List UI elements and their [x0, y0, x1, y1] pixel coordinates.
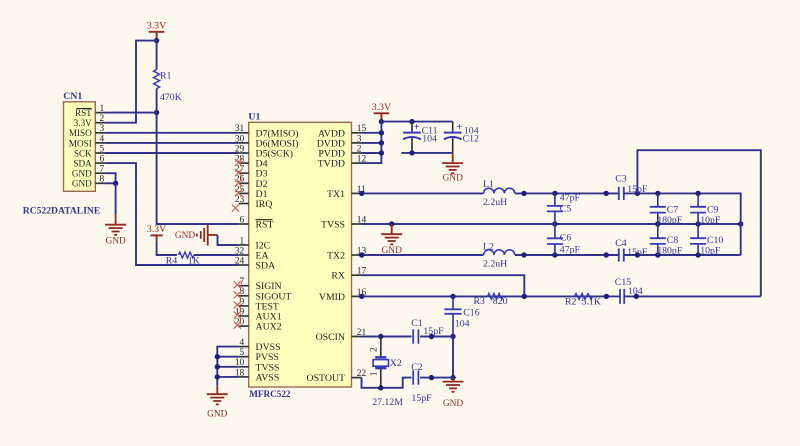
- svg-text:2.2uH: 2.2uH: [483, 259, 507, 270]
- U1 left pin 8 stub: [239, 295, 249, 297]
- U1 left pin 6 number: [240, 215, 245, 225]
- U1 left pin 4 number: [240, 338, 245, 348]
- U1 pin 9 name TEST: [256, 301, 279, 312]
- svg-text:22: 22: [357, 369, 367, 379]
- wire antenna loop: [637, 150, 760, 296]
- node junction C5 C6 mid: [552, 221, 557, 226]
- label C15 value 104: [628, 286, 643, 297]
- no-connect X on pin 28: [235, 159, 242, 166]
- svg-text:VMID: VMID: [319, 292, 345, 303]
- U1 pin 13 name TX2: [327, 251, 345, 262]
- wire crystal branch: [380, 337, 382, 358]
- U1 pin 11 name TX1: [327, 189, 345, 200]
- U1 right pin 12 number: [357, 155, 367, 165]
- node junction C7 top: [655, 191, 660, 196]
- U1 right pin 2 stub: [352, 152, 362, 154]
- CN1 pin 1 number: [100, 104, 105, 114]
- svg-text:GND: GND: [443, 173, 464, 183]
- svg-text:180pF: 180pF: [657, 215, 683, 226]
- U1 pin 5 name PVSS: [256, 352, 279, 363]
- U1 pin 8 name SIGOUT: [256, 291, 292, 302]
- svg-text:104: 104: [455, 319, 470, 330]
- wire I2C pin to sideways gnd: [218, 235, 239, 245]
- U1 left pin 25 stub: [239, 192, 249, 194]
- U1 pin 2 name PVDD: [318, 149, 345, 160]
- wire MOSI CN1 pin4 to U1 pin30: [105, 142, 239, 144]
- no-connect X on pin 9: [234, 301, 241, 308]
- svg-text:+: +: [456, 122, 462, 133]
- svg-text:6: 6: [240, 215, 245, 225]
- U1 pin 27 name D3: [256, 169, 268, 180]
- U1 right pin 17 number: [357, 267, 367, 277]
- CN1 pin 7 name GND: [72, 169, 92, 179]
- U1 pin 10 name TVSS: [256, 362, 280, 373]
- U1 right pin 22 number: [357, 369, 367, 379]
- ground under VSS bus: [207, 385, 228, 419]
- svg-text:3: 3: [357, 134, 362, 144]
- capacitor C2: [413, 370, 418, 384]
- no-connect X on pin 20: [234, 322, 241, 329]
- label C16 value 104: [455, 319, 470, 330]
- U1 pin 20 name AUX2: [256, 322, 282, 333]
- U1 left pin 31 stub: [239, 132, 249, 134]
- CN1 pin 6 stub: [95, 162, 105, 164]
- wire RST down to U1 pin6: [157, 113, 239, 224]
- U1 left pin 32 number: [235, 246, 245, 256]
- node junction C9 top: [695, 191, 700, 196]
- label R4: [166, 255, 178, 266]
- crystal pin 2 number: [370, 347, 380, 352]
- U1 left pin 7 number: [240, 277, 245, 287]
- node junction C16 OSCIN rail: [450, 334, 455, 339]
- capacitor C15: [620, 289, 624, 304]
- U1 pin 30 name D6(MOSI): [256, 138, 299, 149]
- U1 left pin 5 stub: [239, 356, 249, 358]
- U1 left pin 10 stub: [239, 366, 249, 368]
- node junction C6 bottom: [552, 252, 557, 257]
- crystal pin 1 number: [370, 371, 380, 376]
- U1 pin 7 name SIGIN: [256, 281, 282, 292]
- svg-text:MFRC522: MFRC522: [249, 389, 291, 399]
- U1 right pin 21 stub: [352, 336, 362, 338]
- wire MISO CN1 pin3 to U1 pin31: [105, 132, 239, 134]
- svg-text:TVDD: TVDD: [318, 159, 345, 170]
- node junction AVDD: [379, 130, 384, 135]
- CN1 pin 5 name SCK: [74, 148, 92, 158]
- CN1 pin 4 number: [100, 134, 105, 144]
- CN1 pin 2 number: [100, 114, 105, 124]
- svg-text:3.3V: 3.3V: [147, 21, 166, 32]
- node junction PVDD: [379, 150, 384, 155]
- label X2: [390, 358, 402, 369]
- svg-text:3.3V: 3.3V: [372, 102, 391, 113]
- U1 left pin 10 number: [235, 358, 245, 368]
- wire DVDD pin3: [362, 142, 382, 144]
- CN1 pin 6 name SDA: [73, 159, 92, 169]
- svg-text:1: 1: [370, 371, 380, 376]
- U1 pin 4 name DVSS: [256, 342, 281, 353]
- U1 left pin 28 stub: [239, 162, 249, 164]
- svg-text:OSCIN: OSCIN: [316, 332, 345, 343]
- svg-text:GND: GND: [105, 237, 126, 247]
- wire R1 to RST node: [156, 89, 158, 113]
- node junction CN1 gnd: [113, 181, 118, 186]
- node junction AVSS: [215, 374, 220, 379]
- wire C2 to rail: [420, 377, 453, 379]
- label R2 value 5.1K: [582, 297, 601, 308]
- U1 left pin 18 number: [235, 368, 245, 378]
- node junction C11 bottom: [409, 150, 414, 155]
- no-connect X on pin 23 IRQ: [232, 204, 239, 211]
- no-connect X on pin 25: [235, 189, 242, 196]
- U1 pin 17 name RX: [331, 271, 345, 282]
- node junction after L1: [521, 191, 526, 196]
- label C4 value 15pF: [627, 247, 648, 258]
- U1 pin 15 name AVDD: [318, 128, 345, 139]
- U1 pin 14 name TVSS: [321, 220, 345, 231]
- wire 3.3V rail down to pin12: [362, 122, 382, 164]
- wire CN1 pin1 RST: [105, 112, 157, 114]
- svg-text:10pF: 10pF: [700, 215, 721, 226]
- U1 left pin 19 number: [235, 307, 245, 317]
- wire decoupling bottom: [401, 152, 452, 154]
- node junction TVSS gnd tap: [389, 221, 394, 226]
- U1 pin 21 name OSCIN: [316, 332, 345, 343]
- label + C11: [414, 122, 438, 136]
- svg-text:TVSS: TVSS: [321, 220, 345, 231]
- CN1 pin 3 name MISO: [69, 128, 92, 138]
- U1 pin 28 name D4: [256, 159, 268, 170]
- U1 pin 1 name I2C: [256, 241, 271, 252]
- node junction TVSS: [215, 364, 220, 369]
- wire TX1 after L1: [515, 192, 619, 194]
- U1 left pin 24 number: [235, 256, 245, 266]
- ground under CN1: [105, 215, 126, 247]
- svg-text:GND: GND: [207, 410, 228, 420]
- wire 3.3V to decoupling caps: [381, 121, 452, 123]
- label C6: [560, 233, 572, 244]
- wire TX1 after C3: [624, 193, 741, 255]
- svg-text:TX2: TX2: [327, 251, 345, 262]
- node junction rail at C2 row: [450, 375, 455, 380]
- inductor L2: [484, 250, 515, 255]
- label C3 value 15pF: [627, 184, 648, 195]
- label C7: [667, 204, 679, 215]
- wire SDA CN1 pin6 to U1 pin24: [105, 163, 239, 265]
- svg-text:C5: C5: [560, 204, 572, 215]
- node junction crystal top: [378, 334, 383, 339]
- no-connect X on pin 7: [234, 281, 241, 288]
- connector CN1 body: [64, 102, 96, 192]
- CN1 pin 2 name 3.3V: [74, 118, 92, 128]
- U1 pin 29 name D5(SCK): [256, 149, 294, 160]
- U1 left pin 26 stub: [239, 182, 249, 184]
- U1 pin 16 name VMID: [319, 292, 345, 303]
- label C7 value 180pF: [657, 215, 683, 226]
- svg-text:TX1: TX1: [327, 189, 345, 200]
- svg-text:C3: C3: [615, 173, 627, 184]
- U1 left pin 19 stub: [239, 315, 249, 317]
- node junction 3.3V rail top: [379, 119, 384, 124]
- no-connect X on pin 8: [234, 291, 241, 298]
- label R2: [565, 297, 577, 308]
- label C11 value 104: [422, 134, 437, 145]
- svg-text:4: 4: [100, 134, 105, 144]
- svg-text:+: +: [414, 122, 420, 133]
- capacitor C10: [690, 224, 706, 255]
- svg-text:6: 6: [100, 155, 105, 165]
- ground at TVSS: [381, 224, 402, 256]
- CN1 pin 4 stub: [95, 142, 105, 144]
- U1 left pin 18 stub: [239, 376, 249, 378]
- U1 right pin 21 number: [357, 328, 367, 338]
- U1 left pin 1 number: [240, 236, 245, 246]
- capacitor C12: [444, 122, 462, 153]
- crystal X2: [373, 357, 388, 368]
- svg-text:1: 1: [240, 236, 245, 246]
- wire TX1 from pin11: [362, 192, 484, 194]
- CN1 pin 1 stub: [95, 112, 105, 114]
- label C9: [707, 204, 719, 215]
- connector CN1 refdes: [63, 91, 82, 102]
- wire TX2 after L2: [515, 254, 619, 256]
- resistor R4: [179, 252, 195, 258]
- svg-text:R2: R2: [565, 297, 577, 308]
- svg-text:23: 23: [235, 195, 245, 205]
- U1 left pin 28 number: [235, 155, 245, 165]
- node junction loop tap: [635, 191, 640, 196]
- wire R4 to U1 EA pin32: [194, 254, 239, 256]
- svg-text:GND: GND: [175, 231, 196, 241]
- U1 left pin 8 number: [240, 287, 245, 297]
- svg-text:470K: 470K: [160, 92, 182, 103]
- capacitor C4: [619, 248, 624, 261]
- label 1K: [188, 255, 200, 266]
- svg-text:5: 5: [240, 348, 245, 358]
- wire down to gnd under CN1: [115, 183, 117, 214]
- U1 right pin 11 number: [357, 185, 366, 195]
- svg-text:5: 5: [100, 144, 105, 154]
- net label RC522DATALINE: [23, 205, 100, 216]
- label L1: [483, 179, 494, 190]
- U1 right pin 13 number: [357, 246, 367, 256]
- label C2: [411, 362, 423, 373]
- svg-text:SDA: SDA: [256, 261, 276, 272]
- U1 left pin 23 stub: [239, 203, 249, 205]
- label C5: [560, 204, 572, 215]
- U1 pin 12 name TVDD: [318, 159, 345, 170]
- chip U1 refdes label: [248, 111, 260, 122]
- U1 right pin 15 stub: [352, 132, 362, 134]
- label C2 value 15pF: [411, 393, 432, 404]
- capacitor C5: [547, 193, 563, 224]
- U1 right pin 14 stub: [352, 223, 362, 225]
- CN1 pin 7 number: [100, 165, 105, 175]
- U1 right pin 14 number: [357, 215, 367, 225]
- svg-text:47pF: 47pF: [560, 245, 581, 256]
- svg-text:X2: X2: [390, 358, 402, 369]
- svg-text:2.2uH: 2.2uH: [483, 197, 507, 208]
- label C12: [463, 134, 479, 145]
- label R1: [160, 71, 172, 82]
- node junction C10 bottom: [695, 252, 700, 257]
- svg-text:7: 7: [100, 165, 105, 175]
- wire crystal bottom: [380, 368, 382, 388]
- U1 left pin 27 number: [235, 165, 245, 175]
- node junction after C2: [429, 375, 434, 380]
- U1 pin 32 name EA: [256, 251, 269, 262]
- U1 left pin 23 number: [235, 195, 245, 205]
- node junction TX1 a: [604, 191, 609, 196]
- node junction RX joins: [522, 294, 527, 299]
- label L2 value 2.2uH: [483, 259, 507, 270]
- svg-text:R3: R3: [474, 296, 486, 307]
- node junction DVDD: [379, 140, 384, 145]
- svg-text:C9: C9: [707, 204, 719, 215]
- svg-text:MOSI: MOSI: [69, 138, 92, 148]
- svg-text:U1: U1: [248, 111, 260, 122]
- U1 right pin 12 stub: [352, 162, 362, 164]
- node junction TX1 pin: [359, 191, 364, 196]
- svg-text:L2: L2: [483, 242, 494, 253]
- wire RX pin17: [362, 275, 525, 296]
- label + 104: [456, 122, 478, 136]
- wire AVDD pin15: [362, 132, 382, 134]
- svg-text:2: 2: [370, 347, 380, 352]
- power port 3.3V top-left: [147, 21, 166, 39]
- capacitor C9: [690, 193, 706, 224]
- CN1 pin 6 number: [100, 155, 105, 165]
- wire C1 to rail: [420, 336, 453, 338]
- U1 pin 31 name D7(MISO): [256, 128, 299, 139]
- svg-text:2: 2: [357, 144, 362, 154]
- U1 left pin 24 stub: [239, 264, 249, 266]
- svg-text:8: 8: [100, 175, 105, 185]
- wire TX2 after C4: [624, 254, 741, 256]
- U1 right pin 22 stub: [352, 377, 362, 379]
- svg-text:15pF: 15pF: [411, 393, 432, 404]
- wire rail C16 to C2 row: [452, 337, 454, 378]
- CN1 pin 5 number: [100, 144, 105, 154]
- U1 left pin 29 stub: [239, 152, 249, 154]
- svg-text:C10: C10: [707, 235, 723, 246]
- U1 left pin 20 number: [235, 318, 245, 328]
- svg-text:C4: C4: [615, 238, 627, 249]
- U1 left pin 31 number: [235, 124, 245, 134]
- wire VMID to loop: [624, 295, 761, 297]
- svg-text:10pF: 10pF: [700, 246, 721, 257]
- svg-text:OSTOUT: OSTOUT: [307, 373, 345, 384]
- capacitor C8: [650, 224, 666, 255]
- svg-text:R4: R4: [166, 255, 178, 266]
- no-connect X on pin 27: [235, 169, 242, 176]
- svg-text:MISO: MISO: [69, 128, 92, 138]
- label C16: [463, 307, 479, 318]
- node junction TX2 b: [635, 252, 640, 257]
- svg-text:3.3V: 3.3V: [74, 118, 92, 128]
- label C10 value 10pF: [700, 246, 721, 257]
- U1 left pin 9 stub: [239, 305, 249, 307]
- svg-text:R1: R1: [160, 71, 172, 82]
- U1 pin 22 name OSTOUT: [307, 373, 345, 384]
- no-connect X on pin 19: [234, 311, 241, 318]
- svg-text:C8: C8: [667, 235, 679, 246]
- wire TX2 from pin13: [362, 254, 484, 256]
- capacitor C3: [619, 187, 624, 200]
- node junction C7 C8 mid: [655, 221, 660, 226]
- chip U1 body: [249, 122, 352, 387]
- svg-text:RST: RST: [256, 220, 274, 231]
- svg-text:L1: L1: [483, 179, 494, 190]
- label C6 value 47pF: [560, 245, 581, 256]
- U1 right pin 3 number: [357, 134, 362, 144]
- node junction PVSS: [215, 354, 220, 359]
- U1 left pin 30 number: [235, 134, 245, 144]
- capacitor C11: [403, 122, 421, 153]
- node junction 3.3V top: [154, 38, 159, 43]
- label C10: [707, 235, 723, 246]
- svg-text:180pF: 180pF: [657, 246, 683, 257]
- U1 right pin 16 stub: [352, 295, 362, 297]
- node junction before C15: [604, 294, 609, 299]
- CN1 pin 3 number: [100, 124, 105, 134]
- resistor R3: [488, 293, 504, 299]
- svg-text:C7: C7: [667, 204, 679, 215]
- svg-text:1: 1: [100, 104, 105, 114]
- svg-text:C6: C6: [560, 233, 572, 244]
- label C3: [615, 173, 627, 184]
- wire 3.3V to R1: [156, 41, 158, 70]
- U1 right pin 2 number: [357, 144, 362, 154]
- svg-text:2: 2: [100, 114, 105, 124]
- wire junction to CN1 pin2 branch: [105, 41, 157, 123]
- node junction rail end mid: [738, 221, 743, 226]
- node junction C16 tap: [450, 294, 455, 299]
- CN1 pin 7 stub: [95, 172, 105, 174]
- svg-text:RC522DATALINE: RC522DATALINE: [23, 205, 100, 216]
- svg-text:GND: GND: [72, 169, 92, 179]
- wire OSTOUT pin22: [362, 378, 412, 388]
- label C8: [667, 235, 679, 246]
- label X2 value 27.12M: [372, 397, 403, 408]
- U1 pin 25 name D1: [256, 189, 268, 200]
- U1 pin 19 name AUX1: [256, 312, 282, 323]
- U1 left pin 9 number: [240, 297, 245, 307]
- CN1 pin 2 stub: [95, 122, 105, 124]
- node junction C5 top: [552, 191, 557, 196]
- node junction TX2 pin: [359, 252, 364, 257]
- U1 right pin 16 number: [357, 288, 367, 298]
- resistor R1: [154, 70, 160, 89]
- svg-text:104: 104: [422, 134, 437, 145]
- svg-text:RST: RST: [75, 108, 92, 118]
- wire TVSS pin10: [217, 366, 238, 368]
- U1 pin 18 name AVSS: [256, 372, 280, 383]
- svg-text:47pF: 47pF: [560, 193, 581, 204]
- ground under C12: [442, 153, 463, 183]
- label C1: [411, 318, 423, 329]
- wire PVSS pin5: [217, 356, 238, 358]
- CN1 pin 3 stub: [95, 132, 105, 134]
- U1 right pin 13 stub: [352, 254, 362, 256]
- wire CN1 pin8 GND: [105, 182, 116, 184]
- label R3 value 820: [493, 296, 508, 307]
- svg-text:GND: GND: [443, 399, 464, 409]
- svg-text:820: 820: [493, 296, 508, 307]
- U1 left pin 30 stub: [239, 142, 249, 144]
- U1 left pin 7 stub: [239, 285, 249, 287]
- U1 right pin 15 number: [357, 124, 367, 134]
